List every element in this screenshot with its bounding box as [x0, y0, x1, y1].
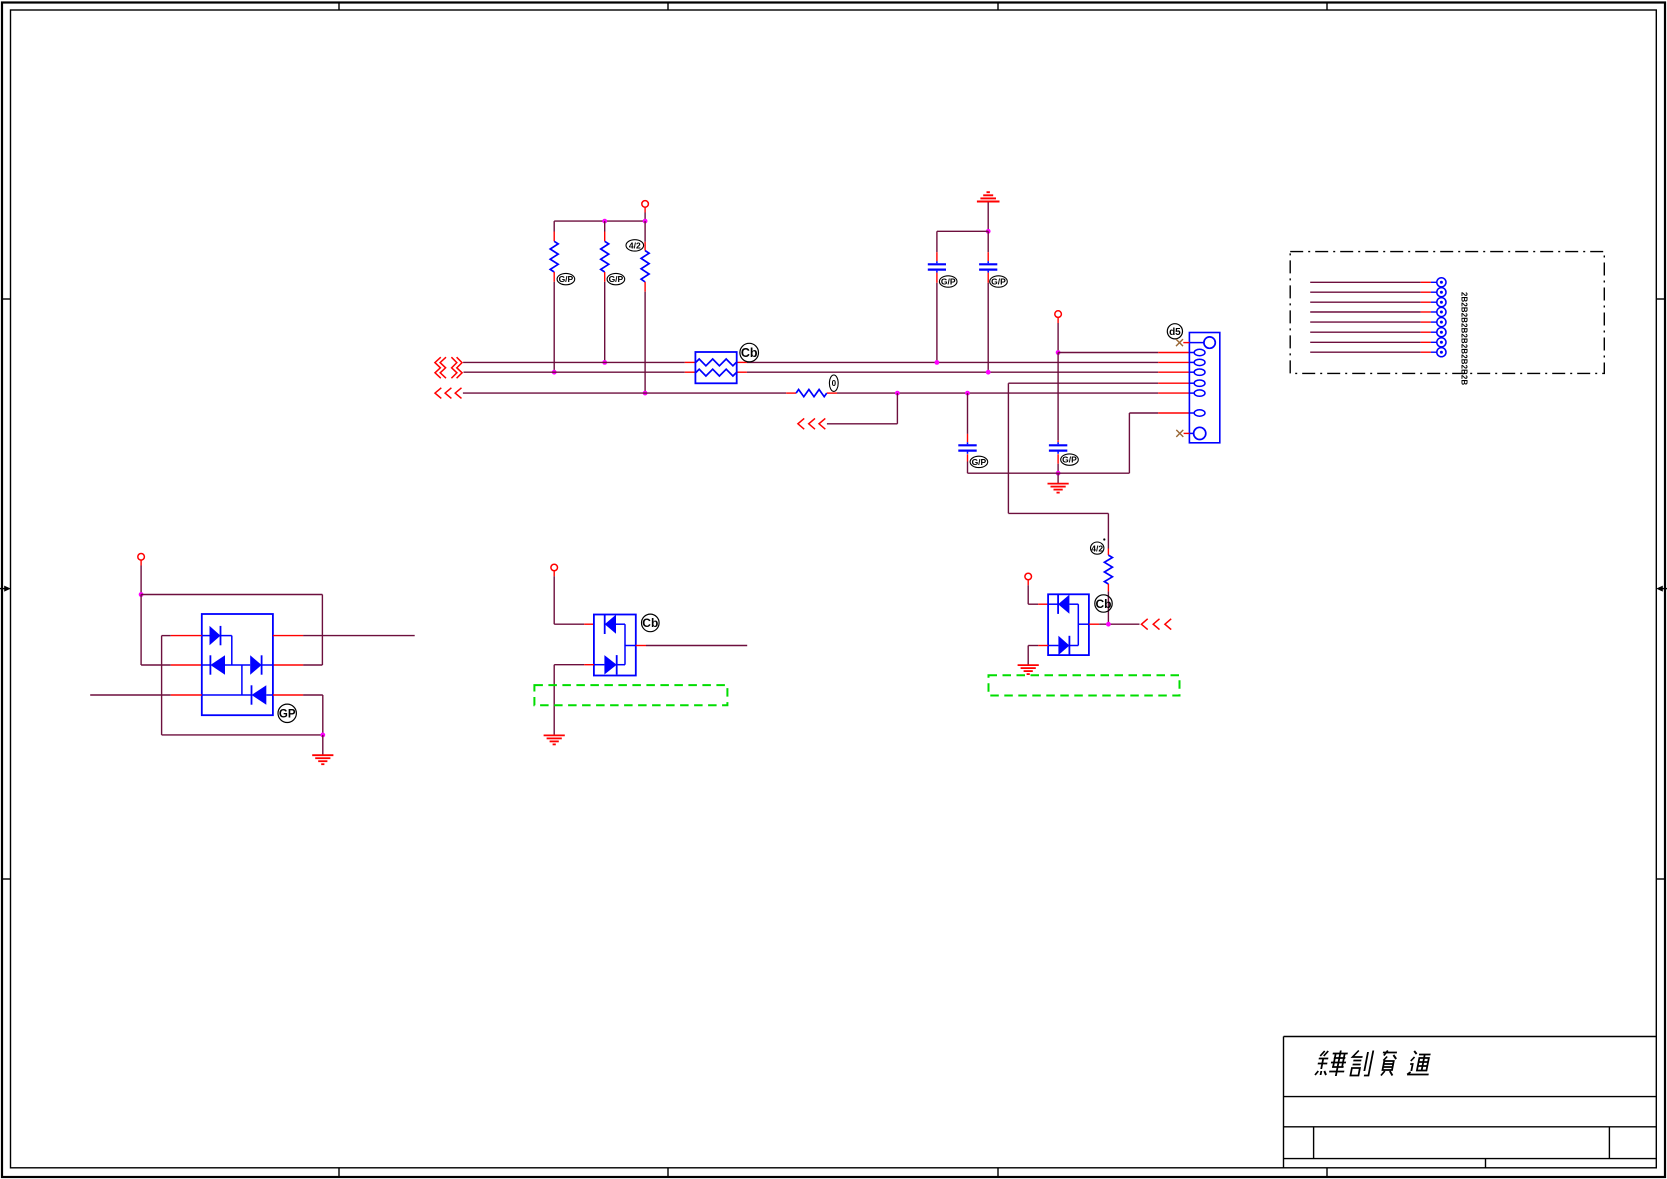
diode D5 top (points left) — [604, 615, 606, 635]
bus wire 1 — [463, 361, 1189, 363]
U2 output wire — [636, 645, 646, 647]
svg-text:G/P: G/P — [941, 277, 956, 287]
wire P3 down — [140, 566, 142, 595]
border tick bottom 1 — [338, 1168, 340, 1177]
junction — [643, 219, 648, 224]
power port P2 — [1055, 311, 1062, 318]
row1 right wire (dangling) — [273, 635, 303, 637]
layout note box (green dashed) — [534, 685, 727, 705]
svg-text:Cb: Cb — [741, 346, 758, 360]
wire C2 top — [987, 231, 989, 252]
capacitor C3 — [958, 434, 976, 462]
svg-text:0: 0 — [832, 379, 837, 388]
layout note box (green dashed) — [989, 675, 1180, 695]
test point wire 4 — [1310, 307, 1446, 316]
wire P4 right — [554, 623, 584, 625]
ground U1 — [322, 735, 324, 755]
svg-text:G/P: G/P — [991, 277, 1006, 287]
junction R5/output — [1106, 622, 1111, 627]
wire C4 bottom — [1057, 464, 1059, 474]
resistor R5 — [1104, 549, 1112, 592]
U2 body — [594, 615, 636, 676]
bottom wire — [162, 734, 323, 736]
svg-text:G/P: G/P — [609, 274, 624, 284]
border centre arrow left — [0, 586, 11, 592]
row1 left vertical to bottom — [161, 636, 163, 735]
row3 left wire — [90, 694, 171, 696]
pin 4 — [1189, 369, 1205, 375]
dash-dot boundary — [1290, 252, 1604, 374]
border tick bottom 2 — [667, 1168, 669, 1177]
svg-text:Cb: Cb — [642, 616, 658, 630]
U1 internals — [202, 626, 273, 705]
junction R1/bus2 — [552, 370, 557, 375]
wire C2 bottom — [987, 283, 989, 372]
test point wire 5 — [1310, 318, 1446, 327]
pin stub P2 — [1057, 317, 1059, 323]
U1 body — [202, 614, 273, 715]
resistor R1 — [550, 232, 558, 282]
svg-text:G/P: G/P — [1062, 455, 1077, 465]
junction C2/bus2 — [986, 370, 991, 375]
resistor pack RP1 — [695, 352, 736, 383]
RP1 ref label — [740, 343, 759, 362]
pin stub of P1 — [644, 207, 646, 212]
wire R2 bottom — [604, 282, 606, 363]
wire top horizontal — [554, 220, 645, 222]
C4 ref label — [1061, 454, 1079, 465]
wire P5 right — [1028, 603, 1038, 605]
resistor R2 — [601, 232, 609, 282]
svg-text:G/P: G/P — [972, 457, 987, 467]
pin stub P3 — [140, 560, 142, 565]
wire P3 to row2 left — [140, 595, 142, 666]
ground U3 — [1018, 665, 1039, 674]
junction C3/bus3 — [965, 391, 970, 396]
wire to pin2 — [1058, 352, 1158, 354]
wire R2 top — [604, 221, 606, 231]
svg-text:4/2: 4/2 — [629, 240, 641, 250]
ground under caps — [1057, 473, 1059, 483]
diode D3 row2 right — [250, 655, 261, 674]
border tick bottom 3 — [997, 1168, 999, 1177]
wire P3 loop right — [141, 594, 322, 596]
wire R3 top — [644, 221, 646, 242]
pin 7 — [1189, 410, 1205, 416]
junction ground — [320, 733, 325, 738]
wire C3 top — [967, 393, 969, 434]
wire C3 bottom — [967, 462, 969, 474]
wire to ground — [1027, 646, 1029, 666]
capacitor C2 — [979, 252, 997, 283]
border centre arrow right — [1656, 586, 1667, 592]
U2 bottom row left wire — [584, 664, 594, 666]
title block — [1284, 1037, 1657, 1168]
test point wire 6 — [1310, 328, 1446, 337]
svg-text:Cb: Cb — [1096, 597, 1112, 611]
wire up to pin7 — [1128, 413, 1130, 473]
wire to ground — [553, 665, 555, 736]
border tick top 2 — [667, 2, 669, 10]
junction P3 — [139, 592, 144, 597]
junction P2 — [1056, 350, 1061, 355]
R5 ref label — [1091, 538, 1106, 554]
U3 ref label — [1095, 595, 1112, 612]
wire pin5 down — [1007, 383, 1009, 513]
wire P2 down — [1057, 323, 1059, 353]
power port P4 — [551, 564, 558, 571]
output tap — [625, 645, 636, 647]
pin stub P5 — [1027, 580, 1029, 585]
U2 internals — [594, 615, 636, 675]
test point wire 7 — [1310, 338, 1446, 347]
svg-text:2B2B2B2B2B2B2B2B2B: 2B2B2B2B2B2B2B2B2B — [1460, 292, 1469, 385]
bus wire 3 — [463, 392, 1190, 394]
wire R1 top — [553, 221, 555, 231]
company name 緯創資通 (hand drawn strokes) — [1315, 1051, 1433, 1077]
wire P5 down — [1027, 585, 1029, 604]
row3 right wire — [273, 694, 303, 696]
resistor R4 on bus3 — [796, 390, 827, 397]
wire cap tops horizontal — [937, 230, 988, 232]
bus wire 2 — [464, 371, 1190, 373]
pin 6 — [1189, 390, 1205, 396]
junction bus3 branch — [895, 391, 900, 396]
junction C1/bus1 — [935, 360, 940, 365]
connector body — [1189, 333, 1219, 443]
border tick bottom 4 — [1326, 1168, 1328, 1177]
R2 ref label — [607, 273, 625, 284]
C3 ref label — [970, 456, 988, 467]
U2 ref label — [642, 614, 660, 632]
capacitor C1 — [928, 252, 946, 283]
pin 5 — [1189, 380, 1205, 386]
border tick right 1 — [1656, 298, 1665, 300]
svg-text:4/2: 4/2 — [1091, 543, 1103, 553]
wire ground stem — [987, 202, 989, 231]
pin 3 — [1189, 359, 1205, 365]
border tick left 1 — [2, 298, 11, 300]
diode D6 bottom (points right) — [594, 664, 605, 666]
off-page connector bus3 (left chevrons) — [435, 388, 462, 399]
junction — [602, 219, 607, 224]
diode D4 row3 — [202, 694, 252, 696]
wire pin7 horizontal — [1129, 412, 1158, 414]
svg-text:GP: GP — [279, 708, 296, 720]
ground U2 — [544, 735, 565, 744]
diode D1 row1 — [202, 635, 210, 637]
wire R5 to junction — [1107, 591, 1109, 624]
junction R2/bus1 — [602, 360, 607, 365]
output tap — [1078, 623, 1089, 625]
junction R3/bus3 — [643, 391, 648, 396]
R4 ref label (vertical) — [829, 375, 838, 391]
svg-text:G/P: G/P — [559, 274, 574, 284]
power port P5 — [1025, 573, 1032, 580]
diode D7 top (points left) — [1048, 603, 1058, 605]
R1 ref label — [557, 273, 575, 284]
diode D2 row2 — [202, 664, 211, 666]
test point wire 3 — [1310, 298, 1446, 307]
U3 output wire — [1089, 623, 1099, 625]
wire P2 to C4 — [1057, 353, 1059, 441]
off-page connector (left chevrons) — [1141, 619, 1171, 630]
U3 bottom row left wire — [1038, 645, 1048, 647]
border tick top 3 — [997, 2, 999, 10]
U3 internals — [1048, 594, 1089, 655]
U1 ref label — [278, 704, 296, 722]
wire pin5 horizontal — [1008, 382, 1158, 384]
pin 1 — [1183, 337, 1215, 348]
R3 ref label — [626, 240, 644, 251]
no-connect X pin8 — [1176, 430, 1183, 437]
wire bus3 branch down — [896, 393, 898, 424]
svg-text:d5: d5 — [1169, 327, 1181, 338]
junction — [986, 229, 991, 234]
power port P1 — [642, 201, 649, 208]
border tick top 1 — [338, 2, 340, 10]
C1 ref label — [939, 276, 957, 287]
wire C1 top — [936, 231, 938, 252]
capacitor C4 — [1049, 440, 1067, 463]
wire caps bottom horizontal — [968, 472, 1130, 474]
C2 ref label — [990, 276, 1008, 287]
pin 2 — [1189, 349, 1205, 355]
wire R3 bottom — [644, 292, 646, 393]
wire P4 down — [553, 576, 555, 624]
diode D8 bottom (points right) — [1048, 645, 1058, 647]
wire C1 bottom — [936, 283, 938, 363]
border tick top 4 — [1326, 2, 1328, 10]
off-page connector (left chevrons) — [798, 418, 825, 429]
row1 left wire — [162, 635, 171, 637]
wire bus3 branch left — [827, 423, 898, 425]
off-page bus entry symbol (double chevrons) — [435, 357, 462, 378]
no-connect X pin1 — [1176, 339, 1183, 346]
wire R1 bottom — [553, 282, 555, 372]
ground (inverted, top) — [977, 192, 1000, 201]
test point wire 1 — [1310, 278, 1446, 287]
border tick left 2 — [2, 878, 11, 880]
wire P1 down — [644, 213, 646, 222]
resistor R3 — [641, 242, 649, 292]
pin stub P4 — [553, 571, 555, 576]
junction C4/gnd — [1056, 471, 1061, 476]
U3 body — [1048, 594, 1089, 655]
test point wire 8 — [1310, 348, 1446, 357]
pin 8 — [1184, 427, 1206, 439]
J1 ref label — [1167, 324, 1182, 339]
test point wire 2 — [1310, 288, 1446, 297]
power port P3 — [138, 554, 145, 561]
wire pin5 right — [1008, 512, 1108, 514]
wire down to R5 — [1107, 513, 1109, 548]
border tick right 2 — [1656, 878, 1665, 880]
